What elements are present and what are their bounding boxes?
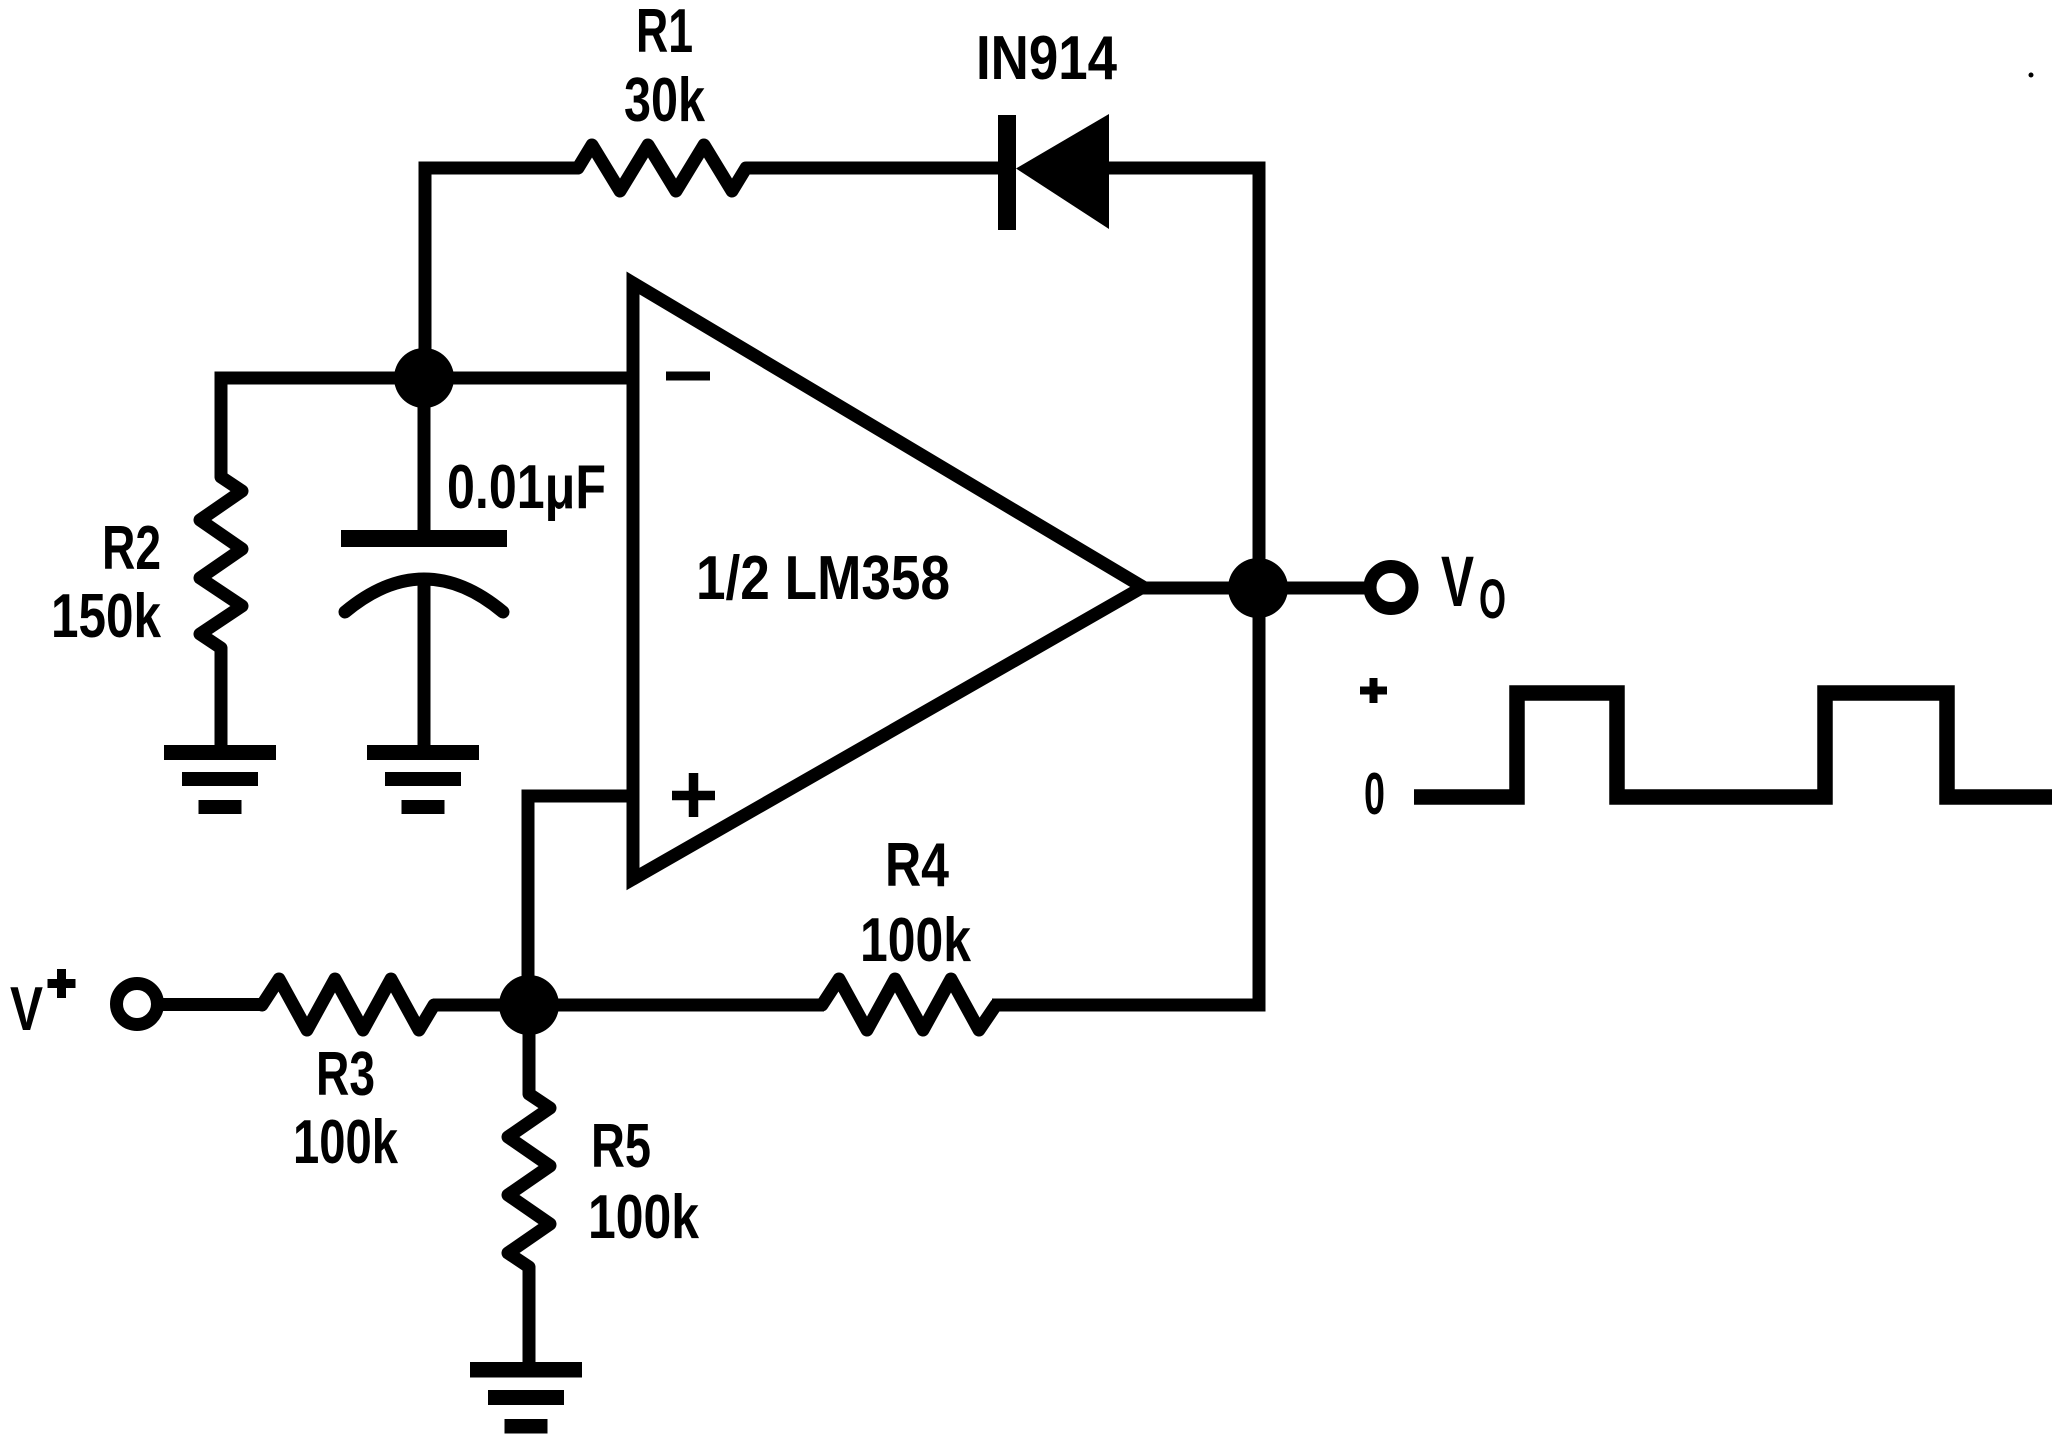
- ground under R2: [164, 745, 276, 814]
- svg-text:0.01μF: 0.01μF: [447, 453, 606, 522]
- svg-text:100k: 100k: [293, 1108, 398, 1177]
- svg-text:V: V: [1441, 543, 1474, 622]
- resistor R3: [262, 979, 434, 1030]
- label Vo: [1441, 543, 1506, 630]
- label V+: [10, 969, 76, 1044]
- resistor R2: [200, 477, 242, 648]
- node A junction dot (inverting input): [394, 348, 454, 408]
- svg-text:R1: R1: [636, 0, 693, 66]
- op-amp U1 1/2 LM358: [633, 283, 1143, 879]
- op-amp minus input sign: [666, 372, 710, 381]
- resistor R1: [578, 145, 746, 191]
- wire inverting rail (R2 top to op-amp minus input) with R2 top lead: [221, 378, 632, 477]
- terminal Vo circle: [1370, 567, 1412, 609]
- diode D1 IN914 cathode bar: [998, 115, 1016, 230]
- svg-text:R3: R3: [316, 1040, 375, 1109]
- svg-text:1/2 LM358: 1/2 LM358: [696, 544, 950, 613]
- terminal V+ circle: [117, 984, 158, 1025]
- wire op-amp output to Vo terminal: [1143, 582, 1367, 595]
- svg-text:R2: R2: [102, 514, 161, 583]
- wire R2 bottom lead: [215, 648, 228, 752]
- svg-text:150k: 150k: [51, 582, 161, 651]
- wire non-inverting input to bottom junction: [528, 796, 632, 1005]
- svg-text:100k: 100k: [588, 1183, 699, 1252]
- svg-text:R4: R4: [885, 831, 949, 900]
- capacitor C1 curved plate: [345, 579, 503, 612]
- svg-text:30k: 30k: [624, 66, 705, 135]
- wire R1 to diode: [746, 162, 1000, 175]
- ground under R5: [470, 1362, 582, 1434]
- svg-text:O: O: [1479, 567, 1506, 630]
- ground under capacitor: [367, 745, 479, 814]
- svg-text:R5: R5: [591, 1112, 651, 1181]
- wire diode to right rail, down right side, and bottom rail to R4: [992, 168, 1259, 1005]
- resistor R5: [508, 1094, 550, 1267]
- waveform plus label: [1360, 678, 1387, 703]
- capacitor C1 top plate: [341, 530, 507, 547]
- svg-text:0: 0: [1364, 761, 1385, 827]
- resistor R4: [822, 979, 996, 1030]
- node B junction dot (non-inverting divider): [499, 975, 559, 1035]
- svg-text:IN914: IN914: [976, 24, 1117, 93]
- svg-text:V: V: [10, 975, 43, 1044]
- wire R5 bottom lead: [523, 1267, 536, 1369]
- op-amp plus input sign: [672, 773, 715, 817]
- wire R5 top lead: [523, 1005, 536, 1094]
- speck artifact: [2029, 73, 2034, 78]
- wire R3 to R4 through junction: [433, 999, 824, 1012]
- wire capacitor top lead: [418, 378, 431, 531]
- wire capacitor bottom lead: [418, 578, 431, 752]
- wire top-left vertical from R1 rail down to inverting node: [425, 168, 578, 378]
- svg-text:100k: 100k: [860, 906, 971, 975]
- diode D1 IN914 triangle: [1016, 114, 1109, 229]
- node output junction dot: [1228, 558, 1288, 618]
- wire V+ to R3: [158, 998, 265, 1011]
- waveform square wave: [1414, 693, 2052, 797]
